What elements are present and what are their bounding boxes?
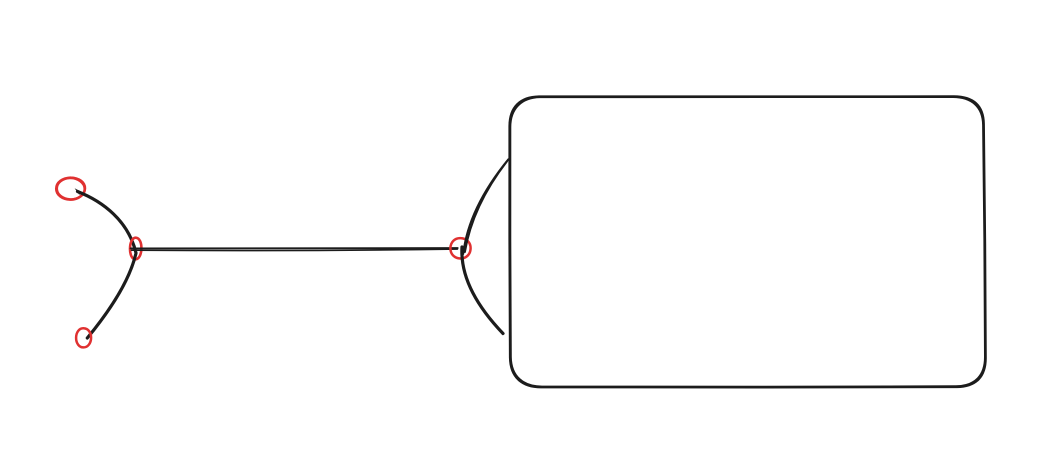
node C (red circle bottom-left) (76, 328, 91, 347)
wire node D to box top-left edge (double stroke) (463, 159, 508, 254)
wire node B to node D (horizontal, double stroke) (131, 248, 458, 251)
wire node D to box bottom-left edge (462, 247, 503, 334)
box (large rounded rectangle) (509, 96, 985, 387)
node B (red ellipse middle-left junction) (130, 238, 141, 260)
node A (red circle top-left) (56, 178, 85, 200)
wire node A to node B (75, 188, 136, 253)
node D (red circle right junction) (450, 238, 470, 258)
wire node B to node C (87, 254, 136, 338)
